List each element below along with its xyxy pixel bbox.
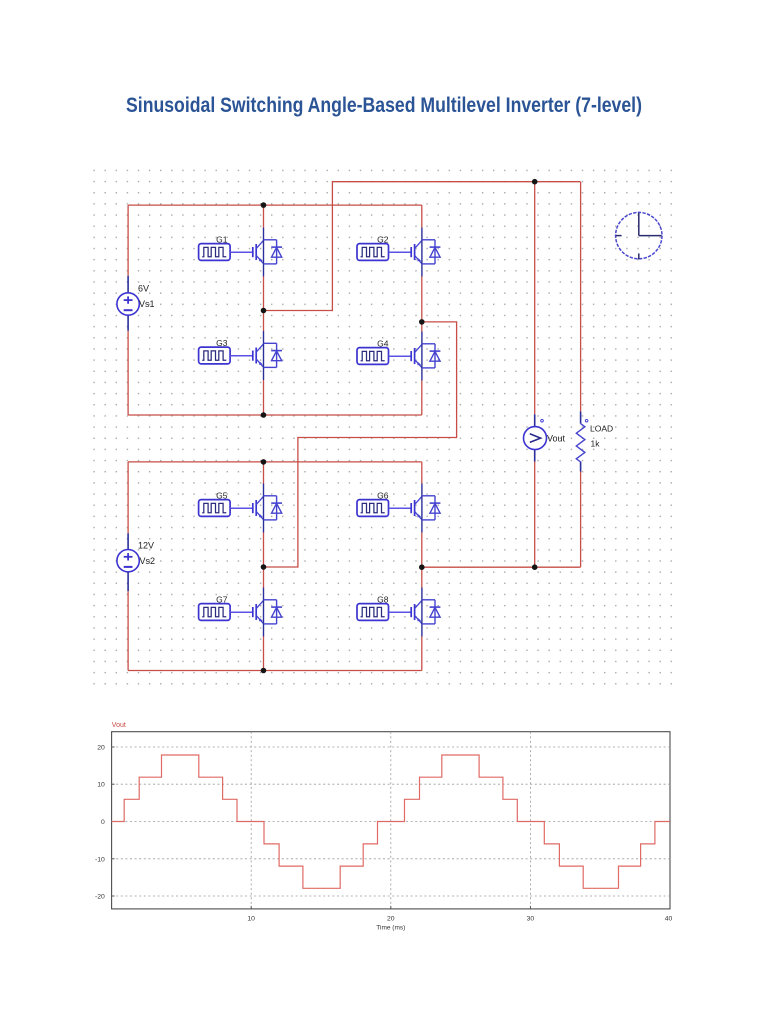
wire load pins: [580, 412, 582, 424]
wire G5 emitter to node C: [263, 533, 265, 568]
transistor Q4 (gate source G4): [357, 332, 440, 381]
wire voltmeter top: [534, 182, 536, 415]
wire tap node B down to bottom bridge node C: [264, 322, 457, 567]
voltmeter U1 Vout: [524, 419, 547, 449]
node A mid-left bridge1: [261, 308, 267, 314]
wire Vs2 bottom: [127, 591, 129, 670]
svg-text:G6: G6: [377, 491, 389, 501]
svg-text:G4: G4: [377, 339, 389, 349]
gridlines: [112, 732, 670, 909]
clock symbol: [616, 212, 662, 259]
svg-text:Vout: Vout: [547, 434, 566, 444]
svg-text:Vs1: Vs1: [139, 299, 155, 309]
svg-text:G1: G1: [216, 235, 228, 245]
wire Vs1 bottom: [127, 331, 129, 415]
wire G4 emitter to bottom rail: [421, 381, 423, 416]
svg-text:Vout: Vout: [112, 722, 126, 729]
axis ticks: [112, 747, 531, 909]
x axis labels: [247, 915, 672, 931]
wire load bottom: [580, 472, 582, 568]
svg-text:12V: 12V: [138, 541, 154, 551]
node B mid-right bridge1: [419, 319, 425, 325]
wire tap node A up to output top: [264, 182, 581, 311]
wire bottom rail (bridge 1): [128, 414, 422, 416]
wire voltmeter bottom: [534, 462, 536, 568]
y axis labels: [95, 745, 105, 901]
node C mid-left bridge2: [261, 564, 267, 570]
wire Vs2 top: [127, 462, 129, 533]
wire G6 collector stub: [421, 462, 423, 484]
wire G1 emitter to node A: [263, 277, 265, 311]
wire G8 emitter to bottom rail: [421, 637, 423, 671]
wire G2 emitter to node B: [421, 277, 423, 322]
svg-text:-10: -10: [95, 856, 105, 863]
transistor Q6 (gate source G6): [357, 484, 440, 533]
wire voltmeter pins: [534, 414, 536, 426]
wire load top: [580, 182, 582, 412]
svg-text:G2: G2: [377, 235, 389, 245]
svg-text:G3: G3: [216, 338, 228, 348]
svg-text:6V: 6V: [138, 284, 149, 294]
svg-text:1k: 1k: [591, 439, 601, 449]
svg-text:G7: G7: [216, 595, 228, 605]
svg-text:10: 10: [247, 915, 255, 922]
labels G1..G8: [216, 235, 389, 605]
junction node dots: [261, 179, 538, 673]
schematic dotted grid: [89, 165, 676, 689]
transistor Q7 (gate source G7): [199, 588, 282, 637]
chart frame: [112, 732, 670, 909]
node D mid-right bridge2: [419, 564, 425, 570]
transistor Q3 (gate source G3): [199, 331, 282, 380]
wire G7 emitter to bottom rail: [263, 637, 265, 671]
node voltmeter bottom: [532, 564, 538, 570]
waveform Vout staircase: [112, 755, 670, 888]
wire Vs1 top: [127, 205, 129, 276]
svg-text:0: 0: [101, 819, 105, 826]
svg-text:G8: G8: [377, 595, 389, 605]
title: [61, 94, 706, 118]
node output top: [532, 179, 538, 185]
resistor LOAD 1k: [576, 424, 585, 462]
svg-text:10: 10: [97, 782, 105, 789]
wire top rail (bridge 2): [128, 461, 422, 463]
transistor Q2 (gate source G2): [357, 228, 440, 277]
wire bottom rail (bridge 2): [128, 670, 422, 672]
svg-text:G5: G5: [216, 491, 228, 501]
node top rail bridge2: [261, 459, 267, 465]
wire Vs1 pins: [127, 276, 129, 293]
svg-text:-20: -20: [95, 894, 105, 901]
wire top rail (bridge 1): [128, 204, 422, 206]
source Vs2: [117, 550, 139, 572]
wire node D to G8 collector: [421, 567, 423, 587]
wire node C to G7 collector: [263, 567, 265, 588]
transistor Q8 (gate source G8): [357, 588, 440, 637]
svg-text:Time (ms): Time (ms): [376, 925, 405, 932]
wire G2 collector stub: [421, 205, 423, 227]
wire G6 emitter to node D: [421, 533, 423, 568]
node bottom rail bridge1: [261, 412, 267, 418]
wire G3 emitter to bottom rail: [263, 380, 265, 415]
svg-text:LOAD: LOAD: [590, 424, 613, 434]
node top rail / G1: [261, 202, 267, 208]
blue pin stubs for sources / meter / load: [128, 276, 580, 591]
transistor Q1 (gate source G1): [199, 228, 282, 277]
wire node B to G4 collector: [421, 322, 423, 332]
svg-text:20: 20: [387, 915, 395, 922]
wire Vs2 pins: [127, 533, 129, 549]
transistor Q5 (gate source G5): [199, 484, 282, 533]
svg-text:30: 30: [527, 915, 535, 922]
wire G1 collector stub: [263, 205, 265, 227]
wire node D to load bottom: [422, 566, 581, 568]
source Vs1: [117, 293, 139, 315]
svg-text:40: 40: [665, 915, 673, 922]
svg-text:Vs2: Vs2: [140, 556, 156, 566]
node bottom rail bridge2: [261, 668, 267, 674]
wire node A to G3 collector: [263, 311, 265, 332]
wire G5 collector stub: [263, 462, 265, 484]
svg-text:20: 20: [97, 745, 105, 752]
